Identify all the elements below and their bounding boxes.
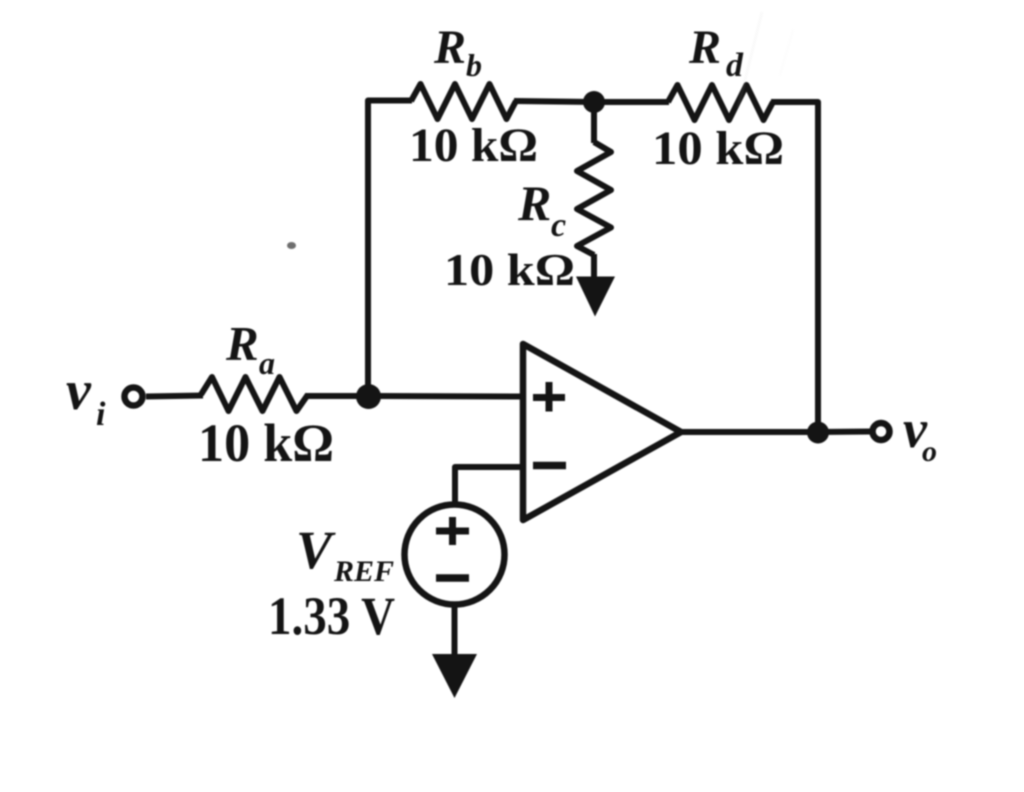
svg-text:10 kΩ: 10 kΩ [198, 413, 334, 473]
junction node A [356, 384, 381, 409]
junction node B [583, 91, 605, 113]
wire op-amp output to node C [681, 429, 818, 435]
svg-text:R: R [517, 175, 551, 231]
svg-text:10 kΩ: 10 kΩ [652, 122, 784, 175]
resistor Ra [201, 377, 308, 411]
wire node B to Rd [594, 99, 669, 105]
wire Ra to node A [306, 393, 368, 399]
svg-text:a: a [259, 345, 275, 381]
wire node C to terminal vo [818, 429, 872, 436]
source VREF [405, 505, 505, 605]
VREF - mark [436, 574, 469, 582]
svg-text:V: V [296, 520, 336, 580]
terminal vi [125, 388, 143, 406]
svg-text:d: d [726, 47, 744, 84]
svg-text:i: i [96, 396, 106, 433]
wire VREF to ground [452, 604, 458, 662]
svg-text:b: b [466, 47, 482, 83]
op-amp U1 [523, 344, 681, 520]
op-amp + input mark [533, 382, 565, 412]
wire Rd to node C (right side down) [771, 102, 818, 433]
wire vi to Ra [146, 396, 203, 397]
svg-text:R: R [433, 21, 466, 74]
svg-text:10 kΩ: 10 kΩ [409, 119, 538, 172]
wire node B to Rc [591, 102, 597, 143]
resistor Rc [577, 142, 611, 255]
wire node A to op-amp + input [368, 393, 523, 400]
ground arrow below Rc [576, 277, 615, 317]
terminal vo [873, 423, 890, 440]
svg-text:REF: REF [333, 555, 394, 588]
svg-text:c: c [551, 207, 566, 244]
wire Rb to node B [514, 101, 594, 102]
wire node A up to Rb [368, 101, 412, 397]
svg-text:R: R [225, 316, 259, 371]
op-amp - input mark [533, 462, 566, 470]
svg-text:10 kΩ: 10 kΩ [444, 244, 575, 295]
junction node C [807, 422, 829, 444]
wire op-amp - input to VREF [455, 467, 523, 505]
ground arrow below VREF [432, 654, 477, 698]
resistor Rb [411, 84, 516, 119]
svg-text:v: v [66, 360, 92, 422]
svg-text:1.33 V: 1.33 V [268, 586, 395, 646]
svg-text:R: R [688, 21, 721, 74]
resistor Rd [668, 85, 773, 120]
wire Rc to ground [591, 254, 597, 285]
svg-text:o: o [922, 435, 937, 468]
VREF + mark [436, 517, 469, 545]
